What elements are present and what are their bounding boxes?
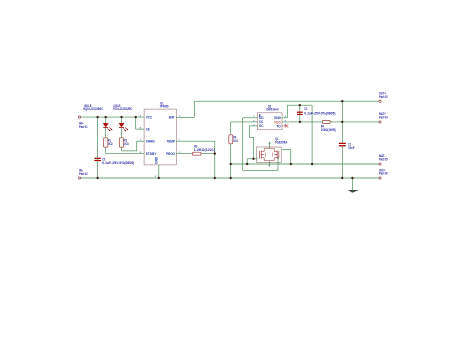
svg-text:100Ω(100R): 100Ω(100R) <box>321 128 336 132</box>
svg-text:BAT: BAT <box>169 115 175 119</box>
svg-text:TEMP: TEMP <box>167 139 176 143</box>
svg-text:Pad 06: Pad 06 <box>379 172 388 176</box>
svg-text:0.1uF-25V-5%(0805): 0.1uF-25V-5%(0805) <box>102 161 134 165</box>
svg-text:1KΩ: 1KΩ <box>124 142 129 146</box>
svg-text:FS8205A: FS8205A <box>275 140 288 144</box>
svg-text:Pad 01: Pad 01 <box>79 125 88 129</box>
svg-text:CHRG: CHRG <box>146 139 155 143</box>
svg-text:PROG: PROG <box>166 152 175 156</box>
svg-text:1KΩ: 1KΩ <box>233 139 238 143</box>
svg-text:TP4056: TP4056 <box>160 105 169 109</box>
svg-text:VCC: VCC <box>146 115 153 119</box>
svg-text:STDBY: STDBY <box>146 152 157 156</box>
svg-text:1KΩ: 1KΩ <box>108 142 113 146</box>
svg-text:Pad 05: Pad 05 <box>379 158 388 162</box>
svg-text:10uF: 10uF <box>348 146 354 150</box>
svg-text:Pad 03: Pad 03 <box>379 95 388 99</box>
svg-text:1.2KΩ(1221): 1.2KΩ(1221) <box>194 148 215 152</box>
svg-text:OC: OC <box>259 124 264 128</box>
svg-text:TO: TO <box>276 124 281 128</box>
svg-text:HT19-2132SURC: HT19-2132SURC <box>113 107 133 111</box>
svg-text:CE: CE <box>146 127 150 131</box>
svg-text:GND: GND <box>155 156 159 164</box>
svg-text:DW01A-G: DW01A-G <box>267 108 280 112</box>
svg-text:0.1uF-25V-5%(0805): 0.1uF-25V-5%(0805) <box>304 111 335 115</box>
svg-text:Pad 04: Pad 04 <box>379 115 388 119</box>
svg-text:Pad 02: Pad 02 <box>79 172 88 176</box>
svg-text:HQ19-2151UBGC: HQ19-2151UBGC <box>83 107 103 111</box>
